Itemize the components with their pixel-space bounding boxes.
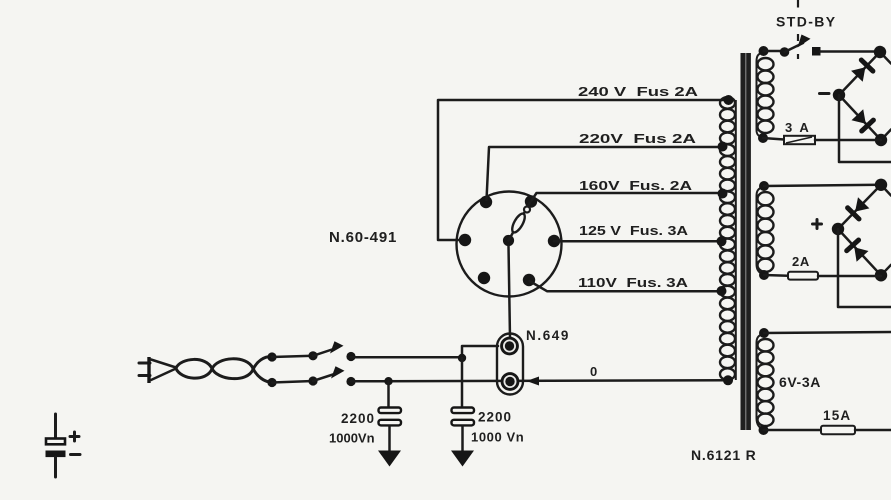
- bridge rectifier 1 (STD-BY): [833, 46, 891, 146]
- switch pole 2 (lower): [267, 366, 355, 387]
- diode D4 (bridge2 lower): [847, 240, 869, 262]
- ground arrow C2: [451, 451, 474, 467]
- fuse 3A: [784, 136, 815, 144]
- wire: pole1 to fuseholder junction: [351, 346, 498, 357]
- wire S2 bottom to fuse 2A: [764, 274, 788, 277]
- svg-text:3 A: 3 A: [785, 120, 811, 135]
- minus mark: [71, 453, 81, 456]
- fuse 15A: [821, 426, 855, 434]
- diode D2 (bridge1 lower): [852, 109, 874, 131]
- capacitor C2 2200pF: [452, 358, 475, 452]
- arrow on 0 wire: [527, 377, 540, 386]
- minus sign bridge1: [820, 92, 830, 95]
- diode D3 (bridge2 upper): [848, 197, 870, 219]
- ground arrow C1: [378, 451, 401, 467]
- STD-BY dashed linkage: [797, 0, 799, 59]
- secondary winding S3: [757, 334, 774, 430]
- wire: pole2 neutral line to transformer (0 rail): [351, 380, 728, 381]
- svg-text:6V-3A: 6V-3A: [779, 374, 821, 390]
- svg-text:160V Fus. 2A: 160V Fus. 2A: [579, 178, 693, 193]
- primary tap 160V: [718, 189, 728, 199]
- switch pole 1 (upper): [267, 341, 355, 361]
- primary tap 220V: [718, 142, 728, 152]
- S3 top terminal: [759, 328, 769, 338]
- svg-text:2200: 2200: [478, 410, 512, 425]
- svg-text:240 V Fus 2A: 240 V Fus 2A: [578, 84, 699, 99]
- svg-text:15A: 15A: [823, 408, 851, 423]
- wire bridge1 negative output: [839, 95, 891, 162]
- svg-text:0: 0: [590, 364, 597, 379]
- svg-text:125 V Fus. 3A: 125 V Fus. 3A: [579, 223, 689, 238]
- svg-text:1000Vn: 1000Vn: [329, 431, 375, 446]
- svg-text:110V Fus. 3A: 110V Fus. 3A: [578, 275, 689, 290]
- stand-by switch: [764, 35, 881, 57]
- primary tap 125V: [717, 236, 727, 246]
- plus mark: [70, 432, 79, 441]
- primary tap 110V: [717, 286, 727, 296]
- wire S1 bottom to fuse 3A: [763, 138, 784, 140]
- S2 bottom terminal: [759, 270, 769, 280]
- S2 top terminal: [759, 181, 769, 191]
- svg-text:N.649: N.649: [526, 328, 570, 343]
- S1 top terminal: [759, 46, 769, 56]
- selector center dot: [503, 235, 514, 246]
- wire S3 bottom to fuse 15A: [764, 429, 822, 432]
- wire 240V tap: [438, 100, 729, 240]
- svg-text:2200: 2200: [341, 411, 375, 426]
- wire 220V tap: [487, 147, 727, 200]
- wire selector center to fuseholder: [509, 246, 511, 338]
- svg-text:N.60-491: N.60-491: [329, 229, 397, 246]
- diode D1 (bridge1 upper): [851, 60, 873, 82]
- primary tap 0: [723, 375, 733, 385]
- wire fuse 2A to bridge2: [818, 275, 881, 278]
- primary winding: [720, 97, 736, 380]
- node: junction line1 / C2: [458, 354, 466, 362]
- fuseholder N.649 body: [497, 334, 523, 395]
- selector wiper fuse link: [509, 203, 531, 241]
- svg-text:220V Fus 2A: 220V Fus 2A: [579, 131, 697, 146]
- wire S2 top to bridge 2: [764, 185, 881, 186]
- fuse 2A: [788, 272, 818, 280]
- selector contact dots: [459, 195, 560, 286]
- fuseholder bottom terminal: [501, 372, 520, 391]
- fuseholder top terminal: [500, 337, 519, 356]
- svg-text:N.6121 R: N.6121 R: [691, 447, 757, 463]
- voltage selector N.60-491 circle: [457, 192, 562, 297]
- S3 bottom terminal: [759, 425, 769, 435]
- plus sign bridge2: [813, 220, 822, 229]
- svg-text:1000 Vn: 1000 Vn: [471, 430, 524, 445]
- mains plug: [139, 357, 176, 383]
- svg-text:2A: 2A: [792, 254, 810, 269]
- wire S3 top output: [764, 332, 891, 333]
- capacitor C1 2200pF: [379, 381, 402, 452]
- secondary winding S2: [757, 187, 774, 275]
- wire 125V tap: [554, 240, 721, 243]
- wire 160V tap: [532, 193, 724, 201]
- transformer core: [741, 53, 751, 430]
- secondary winding S1: [757, 52, 774, 138]
- bridge rectifier 2: [832, 179, 891, 282]
- electrolytic capacitor legend symbol: [46, 414, 66, 477]
- primary tap 240V: [724, 95, 734, 105]
- wire fuse 15A output: [855, 429, 891, 432]
- node: junction C1 on 0 rail: [384, 377, 392, 385]
- wire bridge2 positive output: [838, 229, 891, 307]
- svg-text:STD-BY: STD-BY: [776, 14, 837, 30]
- wire 110V tap: [530, 281, 722, 291]
- wire fuse 3A to bridge1: [815, 139, 881, 142]
- twisted mains cord: [176, 357, 271, 383]
- S1 bottom terminal: [758, 133, 768, 143]
